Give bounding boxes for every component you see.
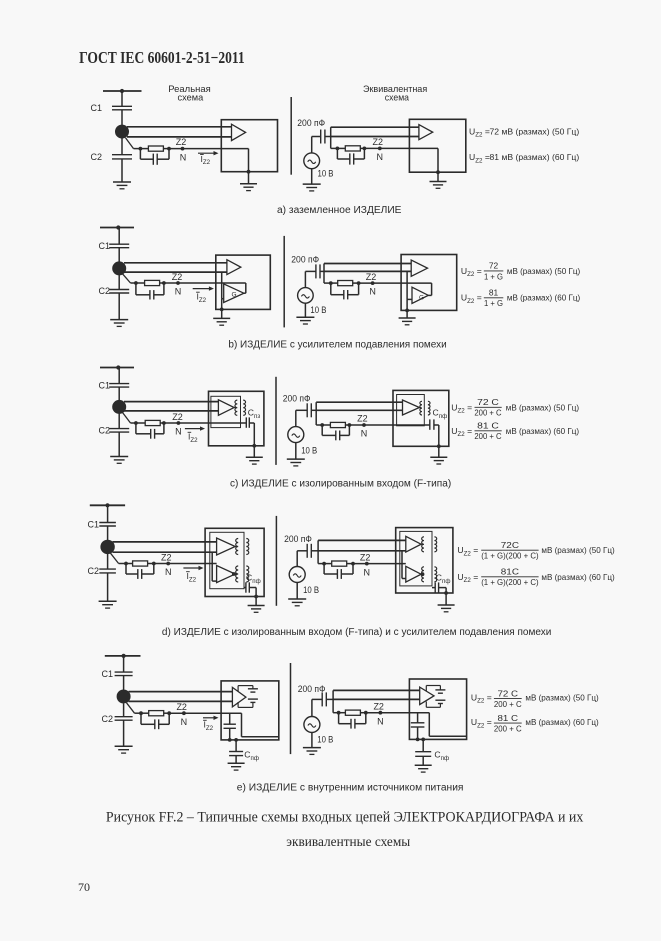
row d right: wire source to ground xyxy=(296,583,298,600)
row c right: capacitor 200 pF xyxy=(306,403,308,417)
row d right: inner wire to box bottom xyxy=(445,588,447,593)
row d left: wire node to amp input 2 xyxy=(113,551,217,553)
svg-text:200 + C: 200 + C xyxy=(494,699,522,709)
row a right: resistor of Z2 network xyxy=(345,146,360,151)
row b right: wire Z2 to box xyxy=(359,282,432,284)
row c right: bypass capacitor of Z2 network xyxy=(321,425,323,435)
row e left: wire capacitor to ground xyxy=(235,756,237,764)
row b right: ground symbol under source xyxy=(296,316,314,318)
row d left: wire C1 to node xyxy=(107,526,109,541)
row d right: wire junction to Z2 network xyxy=(318,563,324,565)
row e right: junction dot Z2 left xyxy=(337,711,341,715)
row b right: junction dot Z2 left xyxy=(329,281,333,285)
row b left: wire node to Z2 network (diagonal) xyxy=(123,274,131,283)
row a left: capacitor C1 xyxy=(112,105,132,107)
svg-text:мВ (размах) (50 Гц): мВ (размах) (50 Гц) xyxy=(541,545,614,555)
svg-text:72 C: 72 C xyxy=(477,397,499,407)
row d right: transformer secondary winding top xyxy=(434,537,436,552)
row b right: wire junction to Z2 network xyxy=(324,282,331,284)
row d right: wire capacitor to junction xyxy=(311,550,318,552)
row e left: inner capacitor xyxy=(224,723,236,725)
row c right: junction dot Z2 right xyxy=(348,423,352,427)
row a right: capacitor 200 pF xyxy=(320,130,322,144)
row d right: wire to amp input 1 xyxy=(318,539,406,541)
row e left: capacitor C2 xyxy=(115,716,133,718)
row d left: junction dot Z2 left xyxy=(124,562,128,566)
svg-text:81C: 81C xyxy=(501,567,519,577)
row e left: wire node to amp input 2 xyxy=(129,700,233,702)
row c left: junction dot Z2 right xyxy=(162,421,166,425)
svg-text:1 + G: 1 + G xyxy=(484,298,503,308)
row a left: bypass capacitor of Z2 network xyxy=(139,149,141,160)
row e right: external capacitor C_pf xyxy=(415,751,431,753)
row e left: wire box to external capacitor xyxy=(235,740,237,752)
row d right: junction dot Z2 left xyxy=(322,562,326,566)
row c right: wire junction to Z2 network xyxy=(316,424,322,426)
row c left: wire C2 to ground xyxy=(118,432,120,456)
row e left: resistor of Z2 network xyxy=(149,711,164,716)
row a right: wire box to ground xyxy=(437,172,439,181)
row a left: op-amp A1 xyxy=(232,124,246,140)
row b right: ISDELIE box xyxy=(401,255,457,311)
row b right: resistor of Z2 network xyxy=(338,281,353,286)
svg-text:10 В: 10 В xyxy=(317,735,333,745)
svg-text:схема: схема xyxy=(385,93,410,103)
row c right: wire box to ground xyxy=(438,446,440,457)
row e left: patient electrode bar xyxy=(105,655,141,657)
row c left: capacitor C2 xyxy=(109,428,129,430)
svg-text:C1: C1 xyxy=(98,381,110,391)
row b left: wire node to amp input 2 xyxy=(124,271,227,273)
row a left: wire box to ground xyxy=(248,172,250,184)
svg-text:е) ИЗДЕЛИЕ с внутренним источ: е) ИЗДЕЛИЕ с внутренним источником питан… xyxy=(237,783,464,794)
row e right: battery loop xyxy=(426,685,440,687)
row c right: junction vertical xyxy=(315,402,317,425)
row d left: ISDELIE box xyxy=(205,528,264,596)
row b right: wire source to ground xyxy=(304,303,306,317)
row e left: ISDELIE box xyxy=(221,681,279,740)
svg-text:C1: C1 xyxy=(101,669,113,679)
svg-text:200 пФ: 200 пФ xyxy=(297,118,325,128)
svg-text:N: N xyxy=(364,567,371,577)
row a right: junction dot Z2 left xyxy=(336,147,340,151)
row c left: wire Z2 to box xyxy=(164,422,209,424)
svg-text:мВ (размах) (60 Гц): мВ (размах) (60 Гц) xyxy=(525,717,598,727)
row c right: inner wire to box bottom xyxy=(438,425,440,446)
row d left: junction dot G output xyxy=(232,572,236,576)
row c left: wire electrode to C1 xyxy=(118,368,120,384)
row b right: inner wire to box bottom xyxy=(406,299,408,310)
row e right: ground symbol under box xyxy=(415,764,432,766)
row e right: junction dot Z2 right xyxy=(364,711,368,715)
row c: divider line xyxy=(275,377,277,465)
row a left: capacitor C2 xyxy=(112,154,132,156)
row c right: isolation capacitor xyxy=(429,419,431,429)
row d right: node N dot xyxy=(365,562,369,566)
svg-text:200 + C: 200 + C xyxy=(494,724,522,734)
svg-text:Z2: Z2 xyxy=(366,272,377,282)
svg-text:Z2: Z2 xyxy=(357,414,368,424)
row b left: patient electrode bar xyxy=(100,227,134,229)
svg-text:G: G xyxy=(419,295,424,302)
row e right: wire capacitor to ground xyxy=(422,756,424,765)
row e right: node N dot xyxy=(379,711,383,715)
svg-text:C1: C1 xyxy=(98,241,110,251)
row a left: junction dot Z2 left xyxy=(139,147,143,151)
row a right: ground symbol under box xyxy=(430,181,447,183)
svg-text:Z2: Z2 xyxy=(176,702,187,712)
svg-text:81 C: 81 C xyxy=(498,713,519,723)
row d left: inner wire input2 to G amp xyxy=(211,552,213,581)
row e right: internal battery xyxy=(435,689,445,691)
svg-text:с) ИЗДЕЛИЕ с изолированным вх: с) ИЗДЕЛИЕ с изолированным входом (F-тип… xyxy=(230,479,451,490)
svg-text:1 + G: 1 + G xyxy=(484,271,503,281)
row e left: junction dot Z2 left xyxy=(139,711,143,715)
row b left: ISDELIE box xyxy=(216,255,270,309)
row c left: isolation inner box xyxy=(211,396,241,427)
row a left: patient electrode bar xyxy=(103,90,142,92)
row b left: wire Z2 to box xyxy=(164,282,216,284)
svg-text:C2: C2 xyxy=(87,566,99,576)
row c left: wire C1 to node xyxy=(118,387,120,400)
svg-text:200 + C: 200 + C xyxy=(474,408,501,418)
row c right: wire to amp input 1 xyxy=(316,401,402,403)
row c left: wire box to ground xyxy=(253,446,255,458)
row d left: capacitor C2 xyxy=(99,568,116,570)
row d right: resistor of Z2 network xyxy=(332,561,347,566)
row b left: inner wire to box bottom xyxy=(221,299,223,310)
row d left: I_Z2 label xyxy=(186,571,190,573)
row e left: wire C2 to ground xyxy=(123,720,125,746)
row c left: junction dot on box bottom xyxy=(252,444,256,448)
svg-text:мВ (размах) (60 Гц): мВ (размах) (60 Гц) xyxy=(541,572,614,582)
row d left: wire C2 to ground xyxy=(107,573,109,601)
row b right: inner wire input2 to G amp xyxy=(406,271,408,299)
row e left: ground symbol under C2 xyxy=(115,745,133,747)
row b right: bypass capacitor of Z2 network xyxy=(330,283,332,295)
row b left: current arrow I_Z2 xyxy=(193,288,211,290)
row b left: node N dot xyxy=(176,281,180,285)
row b left: wire box to ground xyxy=(221,309,223,318)
svg-text:10 В: 10 В xyxy=(301,445,317,455)
row d left: patient electrode bar xyxy=(90,504,125,506)
row d right: transformer primary winding bottom xyxy=(421,573,423,575)
row e left: internal battery xyxy=(248,688,258,690)
svg-text:10 В: 10 В xyxy=(303,585,319,595)
svg-text:72 C: 72 C xyxy=(498,688,519,698)
row e right: AC source 10 V xyxy=(304,717,320,733)
row c right: wire source to ground xyxy=(295,443,297,460)
svg-text:N: N xyxy=(377,716,384,726)
svg-text:а) заземленное ИЗДЕЛИЕ: а) заземленное ИЗДЕЛИЕ xyxy=(277,205,402,216)
row a left: resistor of Z2 network xyxy=(148,146,163,151)
svg-text:81: 81 xyxy=(489,288,499,298)
row b right: op-amp A1 xyxy=(411,260,427,276)
svg-text:d) ИЗДЕЛИЕ с изолированным вх: d) ИЗДЕЛИЕ с изолированным входом (F-тип… xyxy=(162,627,551,638)
row c left: resistor of Z2 network xyxy=(145,420,160,425)
svg-text:81 C: 81 C xyxy=(477,421,499,431)
row c left: bypass capacitor of Z2 network xyxy=(135,423,137,434)
svg-text:72: 72 xyxy=(489,261,499,271)
row b right: op-amp G (noise suppression) xyxy=(412,287,428,303)
row a left: inner wire Z2 line to ground stub xyxy=(221,148,248,150)
row b right: capacitor 200 pF xyxy=(315,264,317,278)
row e left: junction dots on box bottom xyxy=(228,738,232,742)
row b right: wire to amp input 2 xyxy=(324,270,411,272)
row a right: junction vertical xyxy=(330,127,332,148)
row b left: wire C2 to ground xyxy=(118,293,120,320)
svg-text:Z2: Z2 xyxy=(373,702,384,712)
svg-text:C1: C1 xyxy=(87,520,99,530)
row e right: wire to amp input 1 xyxy=(333,689,420,691)
row a right: bypass capacitor of Z2 network xyxy=(336,148,338,159)
row a right: node N dot xyxy=(378,147,382,151)
row d left: capacitor C1 xyxy=(99,522,116,524)
row a left: wire electrode to C1 xyxy=(121,91,123,106)
row e right: wire source to ground xyxy=(311,733,313,748)
row e right: wire junction to Z2 network xyxy=(333,712,339,714)
row d: divider line xyxy=(275,516,277,606)
row e right: inner vertical with capacitor xyxy=(417,713,419,723)
row b right: ground symbol under box xyxy=(399,317,416,319)
row d right: transformer secondary winding bottom xyxy=(434,567,436,582)
row c right: wire source to capacitor xyxy=(295,410,297,426)
row c right: isolation inner box xyxy=(397,395,425,426)
row e left: wire electrode to C1 xyxy=(123,656,125,672)
row c left: wire node to Z2 network (diagonal) xyxy=(123,413,131,424)
row d left: wire electrode to C1 xyxy=(107,505,109,522)
row b left: junction dot Z2 right xyxy=(162,281,166,285)
row d left: transformer secondary winding bottom xyxy=(246,566,248,582)
row c left: ISDELIE box xyxy=(209,391,264,446)
row d left: inner wire to box bottom xyxy=(255,588,257,597)
row d right: transformer primary winding top xyxy=(421,543,423,545)
svg-text:N: N xyxy=(165,567,172,577)
row d left: current arrow I_Z2 xyxy=(183,567,200,569)
row a right: wire to amp input 1 xyxy=(331,126,419,128)
row c left: op-amp A1 xyxy=(218,400,234,416)
row d right: junction dot G output xyxy=(421,572,425,576)
row e right: ground symbol under source xyxy=(303,747,321,749)
svg-text:10 В: 10 В xyxy=(310,305,326,315)
svg-text:N: N xyxy=(377,152,384,162)
row e right: inner wire Z2 line extension xyxy=(428,713,430,737)
row e left: patient node (black dot) xyxy=(117,690,131,704)
row d right: bypass capacitor of Z2 network xyxy=(323,564,325,574)
row a right: wire source to ground xyxy=(311,169,313,184)
row e left: bypass capacitor of Z2 network xyxy=(140,713,142,724)
row e right: junction vertical xyxy=(332,690,334,712)
row a left: current arrow I_Z2 xyxy=(198,152,215,154)
svg-text:ГОСТ IEC 60601-2-51−2011: ГОСТ IEC 60601-2-51−2011 xyxy=(79,48,245,67)
row d left: wire box to ground xyxy=(255,597,257,606)
row e left: current arrow I_Z2 xyxy=(203,717,215,719)
row d left: wire node to C2 xyxy=(107,554,109,569)
row a left: node N dot xyxy=(181,147,185,151)
svg-text:72C: 72C xyxy=(501,540,519,550)
row b right: wire box to ground xyxy=(406,310,408,318)
row c right: resistor of Z2 network xyxy=(330,422,345,427)
row a left: patient node (black dot) xyxy=(115,125,129,139)
row d left: transformer secondary winding top xyxy=(246,539,248,555)
row e right: wire to amp input 2 xyxy=(333,698,420,700)
row a left: ground symbol under box xyxy=(240,183,257,185)
row c left: ground symbol under C2 xyxy=(110,456,128,458)
svg-text:C2: C2 xyxy=(98,286,110,296)
row d right: ISDELIE box xyxy=(396,528,453,593)
row b left: resistor of Z2 network xyxy=(145,280,160,285)
row e left: wire Z2 to box xyxy=(169,712,221,714)
row c right: wire to amp input 2 xyxy=(316,409,402,411)
row d right: inner wire input2 to G amp xyxy=(401,551,403,579)
row c right: op-amp A1 xyxy=(403,400,420,415)
row b left: junction dot on box bottom xyxy=(220,308,224,312)
row d right: junction dot Z2 right xyxy=(351,562,355,566)
row a right: op-amp A1 xyxy=(419,125,433,140)
row b right: wire capacitor to junction xyxy=(320,270,324,272)
row d left: wire Z2 to box xyxy=(154,563,217,565)
row c left: I_Z2 label xyxy=(188,431,192,433)
svg-text:b) ИЗДЕЛИЕ с усилителем подав: b) ИЗДЕЛИЕ с усилителем подавления помех… xyxy=(228,340,446,351)
row d right: wire Z2 to box xyxy=(353,563,406,565)
svg-text:мВ (размах) (50 Гц): мВ (размах) (50 Гц) xyxy=(506,402,579,412)
row e right: ISDELIE box xyxy=(409,679,466,739)
row a right: junction dot on box bottom xyxy=(436,170,440,174)
svg-text:мВ (размах) (60 Гц): мВ (размах) (60 Гц) xyxy=(507,293,580,303)
svg-text:(1 + G)(200 + C): (1 + G)(200 + C) xyxy=(481,551,539,561)
svg-text:70: 70 xyxy=(78,880,90,894)
svg-text:Z2: Z2 xyxy=(373,137,384,147)
row b left: inner wire G output to Z2 line xyxy=(244,292,246,294)
svg-text:G: G xyxy=(232,292,237,299)
row c right: ISDELIE box xyxy=(393,390,449,446)
svg-text:200 + C: 200 + C xyxy=(474,431,501,441)
svg-text:200 пФ: 200 пФ xyxy=(284,534,312,544)
row a right: wire capacitor to junction xyxy=(325,136,331,138)
row a left: ground symbol under C2 xyxy=(113,181,131,183)
row c left: transformer primary winding xyxy=(234,407,236,409)
row e left: wire node to Z2 network (diagonal) xyxy=(127,703,135,713)
row d right: ground symbol under box xyxy=(438,604,455,606)
svg-text:мВ (размах) (60 Гц): мВ (размах) (60 Гц) xyxy=(506,426,579,436)
row e right: resistor of Z2 network xyxy=(345,710,360,715)
row c right: wire Z2 to box xyxy=(349,424,429,426)
row c left: wire node to amp input 2 xyxy=(124,410,218,412)
row c left: node N dot xyxy=(177,421,181,425)
row e right: inner capacitor xyxy=(411,722,425,724)
row d left: patient node (black dot) xyxy=(100,540,114,554)
row b left: wire electrode to C1 xyxy=(118,228,120,245)
row e right: op-amp A1 xyxy=(420,687,434,705)
row a right: inner wire Z2 to ground stub xyxy=(437,148,439,172)
row d left: bypass capacitor of Z2 network xyxy=(125,564,127,575)
row b right: junction vertical xyxy=(323,264,325,284)
svg-text:200 пФ: 200 пФ xyxy=(291,255,319,265)
row c left: patient electrode bar xyxy=(100,367,134,369)
svg-text:N: N xyxy=(369,287,376,297)
row b left: ground symbol under C2 xyxy=(110,319,128,321)
row c right: ground symbol under box xyxy=(430,456,447,458)
svg-text:C2: C2 xyxy=(101,714,113,724)
row c right: junction dot on box bottom xyxy=(437,444,441,448)
row d right: op-amp A1 xyxy=(406,536,421,552)
row b left: wire node to C2 xyxy=(118,275,120,290)
row d left: transformer primary winding top xyxy=(235,546,237,548)
row d right: wire box to ground xyxy=(445,593,447,605)
row e left: inner wire Z2 line extension xyxy=(221,712,241,714)
row b left: wire node to amp input 1 xyxy=(124,262,227,264)
row e left: op-amp A1 xyxy=(232,687,246,707)
row d right: op-amp G xyxy=(406,566,421,582)
row c right: transformer primary winding xyxy=(419,407,421,409)
svg-text:N: N xyxy=(175,287,182,297)
row e left: external capacitor C_pf xyxy=(229,751,243,753)
row c left: wire node to amp input 1 xyxy=(124,401,218,403)
row c right: AC source 10 V xyxy=(288,427,304,443)
row b right: node N dot xyxy=(371,281,375,285)
row b right: AC source 10 V xyxy=(298,288,314,304)
svg-text:C1: C1 xyxy=(90,103,102,113)
svg-text:200 пФ: 200 пФ xyxy=(283,394,311,404)
row d left: op-amp A1 xyxy=(217,538,236,555)
row d left: transformer primary winding bottom xyxy=(235,573,237,575)
svg-text:10 В: 10 В xyxy=(318,169,334,179)
row e right: wire capacitor to junction xyxy=(326,698,333,700)
row e right: wire box to external capacitor xyxy=(422,739,424,751)
svg-text:N: N xyxy=(180,152,187,162)
row c right: node N dot xyxy=(362,423,366,427)
svg-text:(1 + G)(200 + C): (1 + G)(200 + C) xyxy=(481,577,539,587)
row b right: junction dot on box bottom xyxy=(405,309,409,313)
row c right: transformer secondary winding xyxy=(428,401,430,415)
row e right: capacitor 200 pF xyxy=(321,692,323,706)
row c left: wire node to C2 xyxy=(118,413,120,428)
row a left: I_Z2 label xyxy=(200,154,204,156)
svg-text:N: N xyxy=(361,428,368,438)
row c right: wire capacitor to junction xyxy=(311,409,316,411)
row b left: I_Z2 label xyxy=(196,291,200,293)
row b left: capacitor C1 xyxy=(109,243,129,245)
row b right: junction dot Z2 right xyxy=(357,281,361,285)
row e right: bypass capacitor of Z2 network xyxy=(338,713,340,724)
svg-text:C2: C2 xyxy=(90,152,102,162)
row e left: node N dot xyxy=(182,711,186,715)
row e left: wire C1 to node xyxy=(123,676,125,690)
row a left: wire node to amp input 2 xyxy=(127,136,232,138)
row b right: wire to amp input 1 xyxy=(324,263,411,265)
row b left: capacitor C2 xyxy=(109,289,129,291)
row e left: wire node to C2 xyxy=(123,704,125,717)
row d left: resistor of Z2 network xyxy=(133,561,148,566)
row b left: junction dot Z2 left xyxy=(134,281,138,285)
svg-text:200 пФ: 200 пФ xyxy=(298,684,326,694)
row d right: isolation capacitor xyxy=(432,587,435,589)
svg-text:72 мВ (размах) (50 Гц): 72 мВ (размах) (50 Гц) xyxy=(490,126,580,136)
row d left: junction dot Z2 right xyxy=(152,562,156,566)
row e right: wire Z2 to box xyxy=(366,712,430,714)
row e left: ground symbol under box xyxy=(228,762,245,764)
row a right: ground symbol under source xyxy=(303,183,321,185)
svg-text:Z2: Z2 xyxy=(161,552,172,562)
row c left: capacitor C1 xyxy=(109,383,129,385)
svg-text:Z2: Z2 xyxy=(360,552,371,562)
svg-text:C2: C2 xyxy=(98,426,110,436)
row a right: junction dot Z2 right xyxy=(363,147,367,151)
row e left: wire node to amp input 1 xyxy=(129,691,233,693)
row a right: wire Z2 to box xyxy=(364,147,438,149)
row b left: bypass capacitor of Z2 network xyxy=(135,283,137,295)
row a left: wire node to C2 xyxy=(121,138,123,155)
